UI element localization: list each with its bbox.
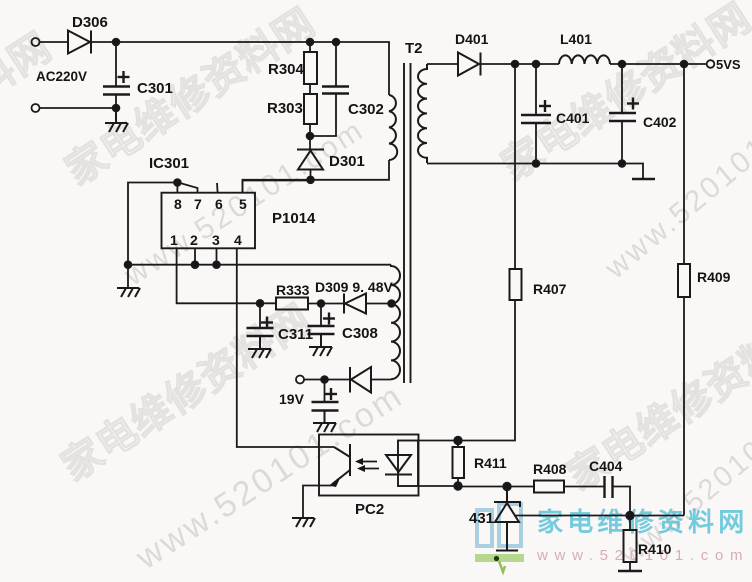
svg-text:R304: R304 — [268, 61, 305, 78]
capacitor C311 — [259, 303, 261, 328]
PC2 LED inner box — [398, 441, 418, 487]
pin 8 stub — [176, 183, 178, 193]
svg-text:8: 8 — [174, 196, 182, 212]
resistor R304 — [304, 52, 317, 84]
transformer T2 core lines — [403, 63, 405, 383]
watermark row G (bottom-right, Chinese) — [554, 296, 752, 501]
node: pin2 on rail — [192, 261, 199, 268]
watermark row A0 (top-left corner fragment) — [0, 16, 61, 132]
terminal AC input top — [32, 38, 40, 46]
svg-text:4: 4 — [234, 232, 242, 248]
inductor L401 — [559, 55, 610, 64]
svg-text:R408: R408 — [533, 461, 567, 477]
IC301 box (P1014) — [162, 193, 256, 249]
node: R333 left / C311 top — [257, 300, 264, 307]
PC2 emitter wire + ground G6 — [303, 486, 332, 519]
wire pin8/7 to left rail — [128, 183, 177, 289]
node: R411 bottom — [454, 482, 462, 490]
capacitor C308 — [320, 304, 322, 327]
svg-text:AC220V: AC220V — [36, 69, 87, 84]
resistor R410 — [624, 530, 637, 562]
ground G2 left rail — [117, 288, 140, 297]
node: C401 bottom — [533, 160, 540, 167]
svg-text:R303: R303 — [267, 100, 303, 117]
svg-text:D309 9. 48V: D309 9. 48V — [315, 279, 393, 295]
wire 431 ref to R410/R409 — [514, 515, 684, 517]
capacitor C404 — [605, 476, 613, 498]
svg-text:5: 5 — [239, 196, 247, 212]
pink url text bottom-right — [537, 547, 749, 564]
svg-text:D306: D306 — [72, 14, 108, 31]
svg-text:2: 2 — [190, 232, 198, 248]
node: aux winding tap — [388, 300, 395, 307]
ground G1 below C301 — [105, 108, 128, 132]
wire terminal to D306 — [40, 41, 68, 43]
wire secondary top to D401 — [427, 63, 458, 65]
node: R411 top — [454, 437, 462, 445]
ground G7 (secondary return) — [632, 178, 655, 181]
wire diode to aux winding bottom — [371, 379, 391, 381]
wire D401 to L401 — [481, 63, 560, 65]
svg-text:D301: D301 — [329, 153, 365, 170]
watermark row E (top-right, Chinese) — [488, 0, 752, 191]
wire L401 to 5VS terminal — [610, 63, 707, 65]
capacitor C401 — [535, 64, 537, 115]
ground G8 below R410 — [618, 570, 642, 573]
wire LED box to R411 bottom — [418, 485, 458, 487]
svg-text:R333: R333 — [276, 282, 310, 298]
TL431 (431) — [494, 487, 520, 551]
node: 431 cathode junction — [503, 483, 511, 491]
PC2 light arrows — [355, 458, 379, 472]
wire LED box to R411 top — [418, 440, 458, 442]
watermark row H (bottom-right corner, url) — [615, 373, 752, 572]
transformer T2 primary winding — [389, 95, 397, 160]
wire secondary return rail — [427, 164, 643, 179]
watermark row F (right, url) — [599, 81, 752, 286]
svg-text:3: 3 — [212, 232, 220, 248]
svg-text:6: 6 — [215, 196, 223, 212]
svg-text:C401: C401 — [556, 110, 590, 126]
node: R410 top junction — [626, 512, 634, 520]
wire R411 bottom to R408 — [458, 486, 534, 488]
watermark row D (middle, url) — [119, 113, 371, 293]
wire primary bottom to pin5 — [243, 160, 390, 193]
node: C302 top — [333, 39, 340, 46]
wire bottom terminal to C301 — [40, 107, 117, 109]
svg-text:C404: C404 — [589, 458, 623, 474]
cyan watermark text bottom-right — [537, 502, 752, 539]
resistor R411 — [453, 447, 465, 478]
diode D309 — [344, 294, 366, 314]
svg-text:R410: R410 — [638, 541, 672, 557]
wire 19V terminal to diode — [304, 379, 350, 381]
svg-text:7: 7 — [194, 196, 202, 212]
wire C301 leads — [115, 42, 117, 87]
svg-text:R407: R407 — [533, 281, 567, 297]
green highlighter band — [475, 554, 524, 562]
node: C402 bottom — [619, 160, 626, 167]
pin 2 stub — [194, 248, 196, 264]
capacitor C302 — [322, 87, 349, 94]
svg-text:431: 431 — [469, 510, 494, 527]
diode D306 — [68, 31, 91, 54]
capacitor C402 — [621, 64, 623, 113]
svg-text:C302: C302 — [348, 101, 384, 118]
PC2 LED diode — [385, 455, 412, 475]
pin 7 stub — [180, 183, 198, 193]
svg-text:D401: D401 — [455, 31, 489, 47]
node: R303 bottom / C302 bottom — [307, 133, 314, 140]
node: C402 top — [619, 61, 626, 68]
pin 4 wire down to PC2 — [237, 248, 334, 447]
resistor R333 — [276, 298, 308, 310]
svg-text:IC301: IC301 — [149, 155, 189, 172]
PC2 phototransistor — [329, 444, 350, 487]
svg-text:P1014: P1014 — [272, 210, 316, 227]
optocoupler PC2 box — [319, 435, 419, 496]
svg-text:T2: T2 — [405, 40, 423, 57]
wire D306 to primary top corner — [91, 42, 389, 95]
watermark row A (top-left, Chinese) — [52, 0, 324, 196]
node: D301 anode junction — [307, 176, 314, 183]
wire bottom rail (pins 2,3 to aux winding top) — [128, 264, 391, 266]
svg-text:C308: C308 — [342, 325, 378, 342]
terminal 19V — [296, 376, 304, 384]
svg-text:C301: C301 — [137, 80, 173, 97]
C301 plus sign — [118, 71, 130, 83]
watermark row C (bottom-left, url) — [129, 376, 411, 578]
watermark row B (left-bottom, Chinese) — [48, 287, 320, 492]
pin numbers top — [170, 196, 247, 248]
transformer secondary winding (top) — [418, 64, 427, 163]
resistor R408 — [534, 481, 564, 493]
19V cap plus sign — [325, 388, 337, 400]
diode D-19V (unlabeled) — [350, 367, 371, 393]
C311 plus sign — [261, 317, 273, 329]
node: C301 bottom junction — [113, 105, 120, 112]
node: R333 right / C308 / D309 — [318, 300, 325, 307]
pin 1 wire down — [177, 248, 276, 303]
svg-text:C402: C402 — [643, 114, 677, 130]
node: D306 output junction — [113, 39, 120, 46]
capacitor below 19V (unlabeled) — [324, 380, 326, 403]
svg-text:L401: L401 — [560, 31, 592, 47]
svg-text:PC2: PC2 — [355, 501, 384, 518]
pin 3 stub — [216, 248, 218, 264]
ground G4 below C308 — [309, 334, 332, 356]
diode D301 — [297, 150, 324, 170]
node: R407 top — [512, 61, 519, 68]
node: R304 top — [307, 39, 314, 46]
node: pin3 on rail — [213, 261, 220, 268]
transformer aux winding — [391, 265, 400, 380]
pin 6 stub — [216, 183, 219, 193]
svg-text:R411: R411 — [474, 455, 507, 471]
node: R409 top / output — [681, 61, 688, 68]
C308 plus sign — [323, 313, 335, 325]
ground G3 below C311 — [248, 336, 271, 358]
node: rail-left tee — [125, 261, 132, 268]
svg-text:19V: 19V — [279, 391, 305, 407]
resistor R407 — [510, 269, 522, 300]
node: 19V cap junction — [321, 376, 328, 383]
svg-text:C311: C311 — [278, 326, 313, 343]
svg-text:R409: R409 — [697, 269, 731, 285]
cyan logo squares (520101 watermark logo) — [477, 504, 521, 546]
diode D401 — [458, 53, 481, 76]
pin 5 wire to D301 node — [243, 181, 311, 193]
svg-text:5VS: 5VS — [716, 57, 741, 72]
capacitor C301 — [103, 87, 130, 95]
green tail mark — [499, 561, 505, 572]
terminal AC input bottom — [32, 104, 40, 112]
wire R407 branch (from D401 node down to R411 top) — [514, 64, 516, 269]
node: C401 top — [533, 61, 540, 68]
terminal 5VS — [707, 60, 715, 68]
dark dot on green band — [494, 556, 499, 561]
svg-text:1: 1 — [170, 232, 178, 248]
resistor R303 — [304, 94, 317, 124]
ground G5 below 19V cap — [313, 411, 336, 433]
resistor R409 — [678, 264, 690, 297]
node: pin8/7 junction — [174, 179, 181, 186]
